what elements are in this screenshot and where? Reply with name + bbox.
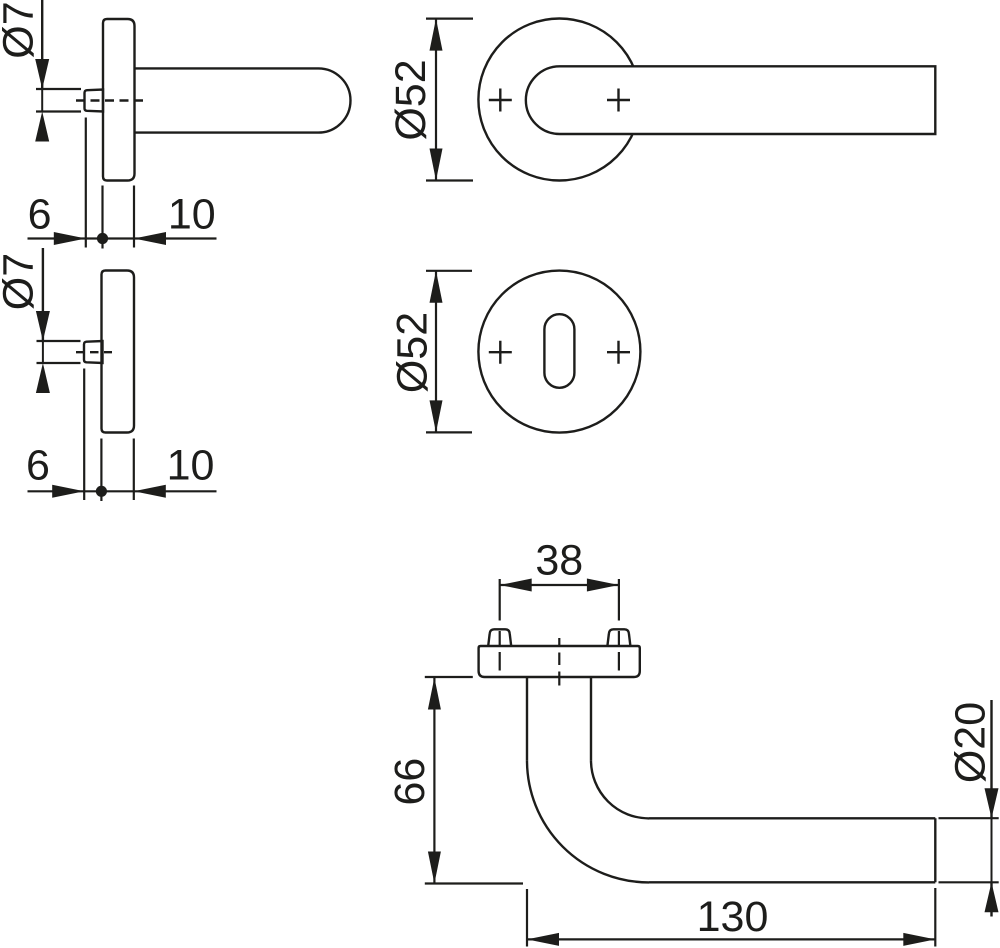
extension line 38 E left: [499, 579, 501, 621]
extension line Ø7 A bottom: [36, 110, 81, 112]
dim line 38 E (horizontal): [500, 584, 619, 586]
flange centerline E (dash): [558, 638, 560, 686]
extension line 130 E left: [526, 889, 528, 947]
screw head E right: [607, 629, 630, 646]
dim line 66 E (vertical): [433, 678, 435, 884]
dim line Ø20 E (vertical): [990, 700, 992, 818]
extension line 66 E bottom: [425, 882, 523, 884]
arrow Ø52 D top (points up): [430, 271, 443, 303]
extension line C from stub face: [83, 369, 85, 501]
extension line Ø52 B bottom: [426, 179, 473, 181]
extension line Ø52 D bottom: [426, 431, 472, 433]
arrow 10 A (points left): [134, 232, 166, 245]
extension line Ø20 E top: [939, 817, 999, 819]
dim line Ø7 C (vertical): [42, 248, 44, 341]
svg-text:10: 10: [168, 191, 216, 239]
arrow 66 E top (points up): [428, 678, 441, 710]
centerline C (dashed): [76, 351, 112, 353]
svg-text:Ø7: Ø7: [0, 253, 43, 310]
rose plate C (side profile): [102, 271, 135, 433]
neck inner bend E: [591, 760, 649, 818]
lever neck A (capsule, side view): [135, 68, 351, 132]
arrow 38 E left (points left): [500, 579, 532, 592]
arrow 6 C (points right): [52, 485, 84, 498]
svg-text:6: 6: [26, 442, 50, 490]
junction dot A: [97, 233, 108, 244]
arrow Ø52 B bottom (points down): [430, 149, 443, 181]
screw mark B right (+): [607, 89, 630, 112]
arrow 10 C (points left): [134, 485, 166, 498]
svg-text:66: 66: [386, 758, 434, 806]
arrow Ø20 E upper (points down): [985, 788, 999, 818]
extension line Ø52 B top: [426, 18, 473, 20]
svg-text:38: 38: [535, 537, 583, 585]
arrow 130 E right (points right): [903, 933, 935, 946]
arrow 6 A (points right): [54, 232, 86, 245]
screw head E left: [488, 629, 511, 646]
arrow Ø7 A upper (points down): [35, 59, 49, 89]
svg-text:Ø20: Ø20: [947, 702, 995, 783]
lever handle B (white filled capsule): [526, 66, 935, 134]
arrow 38 E right (points right): [587, 579, 619, 592]
rose disc B: [478, 19, 640, 181]
extension line C from rose back face: [133, 439, 135, 501]
svg-text:Ø52: Ø52: [389, 312, 437, 393]
extension line Ø7 C top: [37, 340, 81, 342]
dim line 6/10 C (horizontal): [28, 490, 217, 492]
rose plate A (side profile): [103, 19, 135, 181]
grip end face E: [934, 818, 936, 882]
arrow Ø7 C lower (points up): [36, 363, 50, 393]
dim line 6/10 A (horizontal): [28, 237, 217, 239]
extension line Ø7 A top: [36, 88, 81, 90]
extension line Ø7 C bottom: [37, 362, 81, 364]
dim line 130 E (horizontal): [527, 938, 935, 940]
escutcheon disc D: [478, 271, 640, 433]
extension line 66 E top: [425, 676, 473, 678]
arrow 66 E bottom (points down): [428, 852, 441, 884]
dim line Ø52 B (vertical): [435, 19, 437, 181]
keyhole slot D: [544, 314, 574, 388]
extension line 38 E right: [618, 579, 620, 621]
arrow Ø7 C upper (points down): [36, 311, 50, 341]
grip top edge E: [649, 817, 935, 819]
svg-text:6: 6: [28, 191, 52, 239]
arrow Ø7 A lower (points up): [35, 112, 49, 142]
grip bottom edge E: [649, 881, 935, 883]
extension line 130 E right: [934, 888, 936, 947]
screw mark D right (+): [607, 341, 630, 364]
extension line A from rose front face: [101, 186, 103, 249]
neck inner line E: [590, 677, 592, 760]
screw mark B left (+): [489, 89, 512, 112]
arrow Ø20 E lower (points up): [985, 882, 999, 912]
extension line A from stub face: [85, 118, 87, 248]
flange E (rose side profile): [479, 646, 640, 677]
svg-text:10: 10: [167, 442, 215, 490]
dim line Ø52 D (vertical): [435, 271, 437, 433]
svg-text:Ø52: Ø52: [387, 59, 435, 140]
arrow Ø52 B top (points up): [430, 19, 443, 51]
extension line Ø20 E bottom: [939, 881, 999, 883]
svg-text:130: 130: [697, 893, 769, 941]
screw centerline E left (dash): [499, 631, 501, 671]
spindle stub C: [84, 341, 103, 363]
extension line C from rose front face: [100, 439, 102, 502]
screw mark D left (+): [489, 341, 512, 364]
screw centerline E right (dash): [618, 631, 620, 671]
arrow 130 E left (points left): [527, 933, 559, 946]
extension line A from rose back face: [133, 186, 135, 248]
extension line Ø52 D top: [426, 270, 472, 272]
neck outer bend E: [527, 760, 649, 882]
neck outer line E: [526, 677, 528, 760]
spindle stub A: [85, 90, 104, 112]
arrow Ø52 D bottom (points down): [430, 400, 443, 432]
centerline A (dashed): [76, 99, 143, 101]
dim line Ø7 A (vertical): [41, 0, 43, 89]
svg-text:Ø7: Ø7: [0, 1, 43, 58]
junction dot C: [96, 486, 107, 497]
